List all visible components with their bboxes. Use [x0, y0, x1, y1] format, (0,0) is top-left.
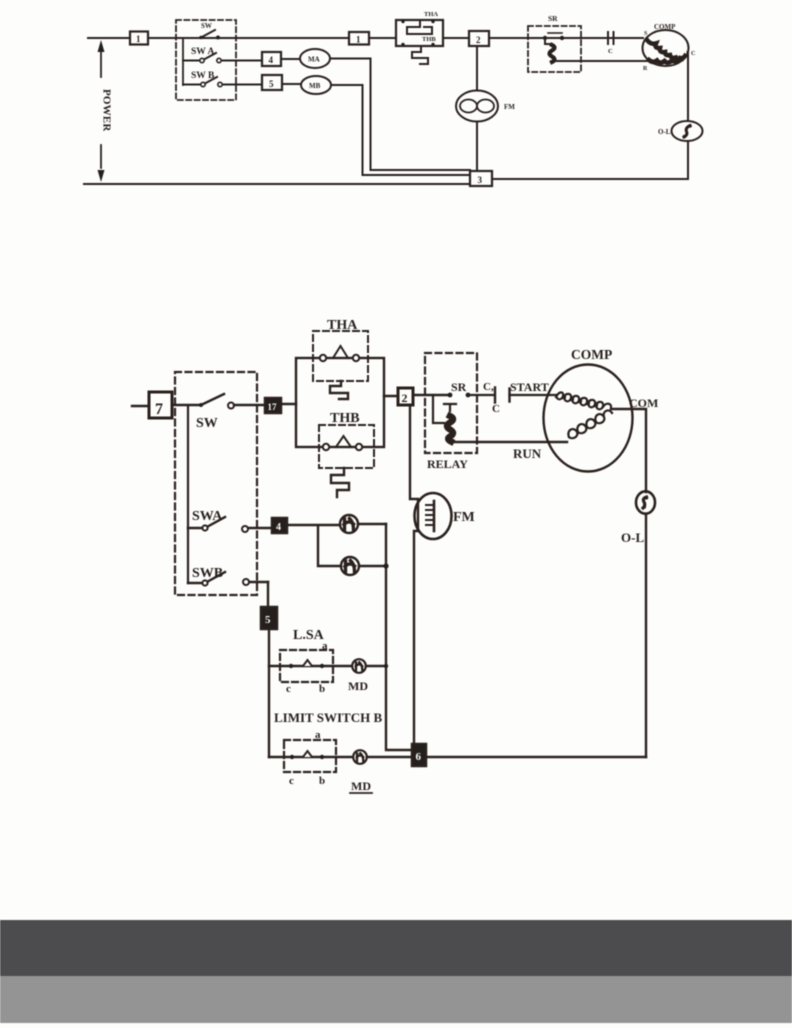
svg-text:POWER: POWER [101, 89, 113, 132]
heater THA [330, 381, 348, 399]
connector box 3 [470, 171, 492, 186]
svg-text:SW B: SW B [191, 71, 215, 81]
svg-text:MD: MD [348, 679, 368, 693]
THA dashed box [313, 331, 368, 381]
wire bottom right run [492, 141, 688, 179]
thermostat THB contacts [323, 444, 329, 450]
connector box 5 [262, 75, 282, 90]
limit switch B contacts [269, 756, 353, 758]
svg-text:COM: COM [629, 396, 658, 410]
fan motor FM [415, 493, 452, 539]
wire SWB to box5 [267, 582, 269, 607]
wire top main [88, 37, 643, 39]
svg-text:O-L: O-L [621, 530, 644, 545]
wire O-L down [645, 514, 647, 757]
relay SR dashed box [528, 26, 581, 72]
lamp 2 [341, 557, 359, 575]
wire MB to box3 [331, 85, 470, 175]
wire bottom to O-L [426, 756, 646, 758]
wire FM drop [476, 46, 478, 91]
svg-text:FM: FM [504, 103, 515, 111]
wire SWB row [188, 582, 268, 583]
switch SW A [202, 53, 216, 61]
wire box1 to THA block [281, 403, 296, 405]
switch SW [201, 394, 224, 405]
wire COMP C down [687, 52, 690, 121]
power rail [100, 50, 102, 168]
switch SW top [201, 30, 215, 38]
wire SW A row [183, 60, 262, 62]
thermostat block THA/THB [396, 20, 443, 46]
svg-text:4: 4 [276, 522, 281, 533]
wire COM [611, 409, 646, 492]
relay SR coil [545, 38, 551, 44]
wire SWA row [188, 527, 272, 529]
svg-text:c: c [286, 683, 291, 695]
svg-text:SW: SW [196, 416, 218, 431]
svg-text:C: C [691, 51, 695, 57]
relay SR contacts [543, 36, 547, 40]
thermostat block outer [296, 358, 384, 447]
capacitor C top [608, 32, 614, 44]
svg-text:3: 3 [478, 175, 483, 185]
svg-text:SW A: SW A [191, 47, 214, 57]
motor MD 1 [352, 659, 366, 673]
svg-text:LIMIT SWITCH B: LIMIT SWITCH B [274, 710, 382, 725]
wire FM to box3 [476, 122, 478, 172]
connector box 1 left [130, 32, 148, 45]
svg-text:SR: SR [548, 14, 558, 23]
wire box2 down to FM [410, 405, 418, 744]
connector box 2 [469, 31, 489, 46]
svg-text:O-L: O-L [658, 128, 671, 136]
wire entry left [132, 405, 149, 407]
svg-text:a: a [322, 640, 328, 652]
svg-text:MB: MB [309, 82, 321, 90]
svg-text:4: 4 [269, 55, 274, 65]
svg-text:SWB: SWB [192, 566, 223, 581]
connector box 2 [398, 388, 413, 405]
junction lamp2 [383, 563, 388, 568]
connector box 4 (dark) [272, 518, 287, 533]
start winding [556, 392, 611, 409]
power rail arrow down [98, 170, 105, 182]
svg-text:a: a [315, 729, 321, 741]
svg-text:c: c [289, 775, 294, 787]
connector box 1 mid [349, 32, 369, 45]
compressor COMP [544, 365, 633, 472]
motor MB [282, 83, 301, 85]
footer light bar [0, 976, 792, 1023]
svg-text:1: 1 [356, 35, 361, 45]
svg-text:COMP: COMP [654, 23, 676, 31]
svg-text:SWA: SWA [192, 509, 223, 524]
svg-text:6: 6 [416, 751, 422, 763]
heater zigzag under THA/THB [412, 46, 428, 64]
connector box 5 (dark) [261, 607, 277, 629]
run winding [568, 410, 612, 438]
wire box2 to relay [413, 394, 448, 396]
svg-text:MD: MD [351, 779, 371, 793]
svg-text:THB: THB [422, 36, 436, 43]
svg-text:RUN: RUN [513, 446, 542, 461]
svg-text:1: 1 [136, 34, 141, 44]
svg-text:b: b [319, 775, 325, 787]
svg-text:L.SA: L.SA [293, 628, 325, 643]
wire SW B row [183, 84, 262, 86]
svg-text:17: 17 [268, 402, 278, 412]
heater THB [331, 468, 349, 497]
switch SWA [205, 517, 225, 528]
connector box 6 (dark) [412, 744, 426, 766]
svg-text:b: b [319, 683, 325, 695]
motor MA [281, 58, 300, 60]
svg-text:C: C [608, 48, 613, 55]
svg-text:COMP: COMP [571, 347, 612, 362]
wire branch vertical in SW box [182, 38, 184, 85]
svg-text:5: 5 [265, 614, 271, 626]
connector box 4 [262, 52, 281, 66]
wire MD2 to box6 [367, 756, 412, 758]
connector box 7 [149, 392, 172, 418]
svg-text:FM: FM [453, 510, 475, 525]
relay coil [447, 416, 453, 442]
wire SR coil to COMP R [553, 60, 649, 62]
wire MA to box3 [330, 59, 470, 171]
dashed box switches [176, 20, 236, 100]
motor MD 2 [353, 750, 367, 764]
overload O-L top [672, 121, 703, 141]
relay hook wire [433, 395, 444, 423]
wire box7 to SW [172, 404, 201, 406]
wire box5 down [268, 629, 270, 757]
switch SWB [205, 572, 225, 583]
capacitor C [468, 394, 556, 396]
svg-text:5: 5 [269, 79, 274, 89]
junction MD1 [384, 664, 388, 668]
svg-text:C: C [492, 403, 500, 415]
svg-text:THA: THA [424, 11, 438, 18]
fan motor FM [456, 91, 498, 122]
switch SW B [203, 77, 217, 85]
wire SW to box1 [234, 404, 265, 406]
footer dark bar [0, 920, 792, 976]
limit switch A contacts [269, 665, 353, 667]
svg-text:C,: C, [483, 381, 494, 393]
svg-text:R: R [643, 66, 648, 72]
thermostat THA contacts [320, 355, 326, 361]
wire branch vertical SW box [187, 406, 189, 583]
connector box 1 (dark) [265, 398, 281, 413]
wire THA block to box2 [384, 395, 398, 397]
svg-text:SW: SW [201, 22, 212, 30]
dashed box switches SW [175, 372, 257, 595]
limit switch B dashed box [284, 740, 336, 772]
overload O-L [636, 491, 655, 513]
svg-text:START: START [510, 380, 549, 394]
wire RUN relay to COMP [452, 441, 567, 443]
svg-text:SR: SR [451, 380, 467, 394]
wire MD1 to lamp line [366, 665, 386, 667]
svg-text:THB: THB [330, 411, 360, 426]
wire lamps branch [287, 524, 386, 566]
svg-text:2: 2 [402, 391, 408, 405]
svg-text:MA: MA [308, 56, 320, 64]
svg-text:7: 7 [155, 401, 163, 418]
THB dashed box [319, 425, 374, 468]
wire bottom main [84, 183, 470, 185]
wire lamps down to box6 [386, 524, 412, 750]
power rail arrow up [98, 40, 105, 52]
svg-text:RELAY: RELAY [427, 457, 468, 471]
relay dashed box [425, 353, 477, 453]
lamp 1 [340, 515, 358, 533]
relay armature T [444, 404, 456, 411]
svg-text:2: 2 [476, 35, 481, 45]
svg-text:THA: THA [327, 318, 358, 333]
limit switch A dashed box [280, 650, 333, 682]
relay contacts [448, 393, 453, 398]
compressor COMP top [643, 30, 689, 66]
